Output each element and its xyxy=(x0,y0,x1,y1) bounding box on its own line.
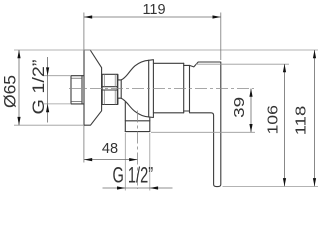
outlet axis centerline xyxy=(137,111,139,190)
dimension 119 xyxy=(84,2,221,19)
dimension G1/2 bottom xyxy=(103,163,173,190)
dimension 48 xyxy=(84,141,138,161)
groove ring bottom edge xyxy=(184,110,190,112)
bell neck seam xyxy=(120,80,122,98)
dimension 39 xyxy=(232,89,253,133)
svg-text:G 1/2”: G 1/2” xyxy=(113,163,154,188)
extension line top (plate top, for dia65 and 118) xyxy=(14,49,318,51)
extension line bottom (lever tip, for 106/118) xyxy=(223,185,319,187)
body cylinder xyxy=(153,63,183,113)
svg-text:119: 119 xyxy=(142,2,165,18)
handle with lever xyxy=(190,62,221,187)
dimension G1/2 left xyxy=(29,57,49,123)
wall line xyxy=(83,13,85,163)
svg-text:Ø65: Ø65 xyxy=(2,75,20,108)
dimension 106 xyxy=(265,64,286,186)
svg-text:118: 118 xyxy=(294,106,310,136)
svg-text:G 1/2”: G 1/2” xyxy=(29,59,48,114)
extension lines G1/2 bottom xyxy=(124,133,126,191)
dimension dia65 xyxy=(2,50,21,125)
escutcheon cone xyxy=(84,50,102,125)
extension lines G1/2 left xyxy=(44,75,70,77)
extension line 39 bottom (outlet bottom) xyxy=(151,131,255,133)
extension line 119 right / lever front xyxy=(220,13,222,61)
extension line 106 top xyxy=(196,63,289,65)
outlet pipe with G1/2 nut xyxy=(125,102,150,132)
hex nut xyxy=(102,74,118,104)
bell cover xyxy=(118,60,154,118)
svg-text:48: 48 xyxy=(102,141,118,157)
wall socket G1/2 xyxy=(71,76,84,104)
extension line dia65 bottom xyxy=(14,124,83,126)
dimension 118 xyxy=(294,50,317,186)
svg-text:39: 39 xyxy=(232,97,248,118)
main axis centerline xyxy=(69,88,254,90)
svg-text:106: 106 xyxy=(265,105,281,135)
groove ring top edge xyxy=(184,64,190,66)
groove ring seam left xyxy=(183,63,185,113)
